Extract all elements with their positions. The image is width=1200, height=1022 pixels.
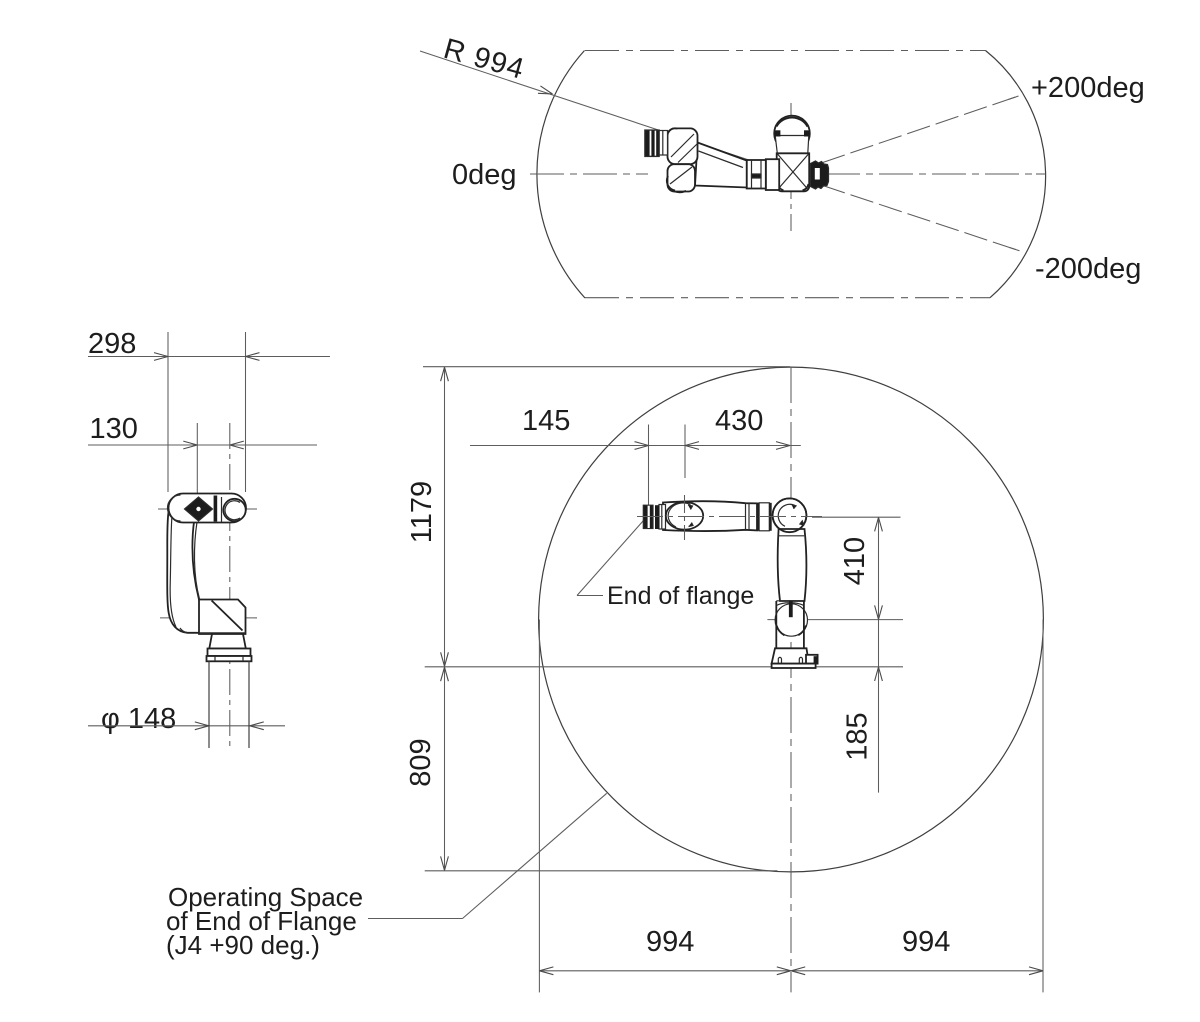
svg-text:(J4 +90 deg.): (J4 +90 deg.) (166, 930, 320, 960)
svg-text:φ 148: φ 148 (101, 703, 176, 735)
svg-text:994: 994 (646, 926, 694, 958)
svg-text:430: 430 (715, 405, 763, 437)
svg-text:End of flange: End of flange (607, 582, 754, 610)
svg-text:145: 145 (522, 405, 570, 437)
svg-text:809: 809 (405, 738, 437, 786)
svg-text:1179: 1179 (406, 481, 438, 543)
svg-text:410: 410 (839, 537, 871, 585)
svg-text:-200deg: -200deg (1035, 253, 1141, 285)
svg-text:+200deg: +200deg (1031, 72, 1145, 104)
svg-text:298: 298 (88, 328, 136, 360)
svg-text:130: 130 (90, 413, 138, 445)
svg-text:185: 185 (842, 712, 874, 760)
svg-text:0deg: 0deg (452, 159, 517, 191)
svg-text:994: 994 (902, 926, 950, 958)
